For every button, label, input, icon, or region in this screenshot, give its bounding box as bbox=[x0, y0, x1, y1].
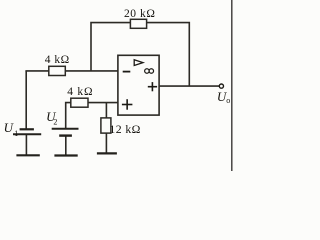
svg-text:12 kΩ: 12 kΩ bbox=[109, 122, 140, 136]
svg-text:2: 2 bbox=[53, 118, 57, 127]
svg-text:20 kΩ: 20 kΩ bbox=[124, 8, 155, 20]
svg-text:4 kΩ: 4 kΩ bbox=[45, 54, 70, 66]
svg-text:U: U bbox=[4, 120, 15, 135]
svg-text:4 kΩ: 4 kΩ bbox=[67, 86, 93, 98]
svg-text:1: 1 bbox=[14, 129, 18, 138]
svg-text:o: o bbox=[226, 96, 230, 105]
